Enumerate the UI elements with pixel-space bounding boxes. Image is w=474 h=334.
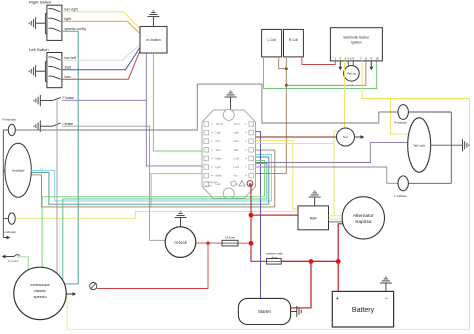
svg-text:speedo config: speedo config bbox=[65, 27, 86, 31]
svg-text:Alternator: Alternator bbox=[353, 213, 374, 219]
wire speedo green 2 to m-unit bbox=[63, 164, 267, 281]
wire F brake to m-button (purple) bbox=[62, 99, 146, 101]
svg-text:1A fuse: 1A fuse bbox=[225, 236, 235, 240]
junction m-lock sensor (red dot) bbox=[206, 241, 209, 244]
wire brown branch to m-unit row8 left (tan) bbox=[151, 174, 204, 207]
svg-text:Horn: Horn bbox=[216, 140, 222, 143]
svg-text:Brake: Brake bbox=[216, 157, 223, 160]
m-unit row tick marks bbox=[211, 124, 247, 176]
ground (m-unit) bbox=[225, 91, 237, 109]
wire speedo gray vertical bbox=[56, 100, 58, 273]
wire front R-indicator to rear (gray wrap) bbox=[15, 84, 398, 130]
wire R coil to ignition pin 8 (brown) bbox=[286, 57, 366, 85]
ground (r brake) bbox=[34, 121, 40, 132]
wire L-indicator to R+R (yellow) bbox=[15, 212, 298, 219]
wire junction to battery plus (red) bbox=[337, 262, 339, 292]
speedo output arrow bbox=[66, 293, 72, 295]
svg-text:motoscope: motoscope bbox=[30, 282, 50, 287]
speedo circle (motoscope classic) bbox=[14, 267, 66, 319]
ignition box U2 (Elektronik Sachur Ignition) bbox=[330, 28, 382, 61]
svg-text:Start: Start bbox=[216, 149, 221, 152]
wire headlight hi to m-unit (teal) bbox=[31, 157, 269, 204]
m-unit terminal squares right bbox=[249, 122, 254, 178]
svg-text:turn left: turn left bbox=[65, 56, 76, 60]
svg-text:Battery: Battery bbox=[352, 307, 375, 314]
wire horn (red) bbox=[62, 51, 140, 80]
trip switch blade bbox=[14, 255, 20, 257]
ground (R+R) bbox=[309, 191, 321, 206]
rear common vertical wire bbox=[450, 112, 452, 183]
m-unit bottom mounting hole bbox=[223, 188, 234, 199]
horn arrow bbox=[355, 136, 361, 138]
R+R box (regulator rectifier) bbox=[298, 206, 329, 230]
junction coil brown 2 bbox=[285, 84, 288, 87]
svg-text:m-lock: m-lock bbox=[174, 240, 187, 245]
wire brake light tap to tail light (yellow) bbox=[391, 99, 409, 134]
m-unit battery terminal circle bbox=[247, 181, 253, 187]
svg-text:10: 10 bbox=[375, 56, 379, 60]
pick-up sensor bbox=[347, 61, 349, 66]
svg-text:light: light bbox=[65, 17, 71, 21]
svg-text:−: − bbox=[385, 296, 389, 302]
wire speedo sensor to m-lock junction (red) bbox=[97, 243, 208, 288]
m-unit warning triangle bbox=[239, 181, 245, 186]
svg-text:motogadget: motogadget bbox=[206, 181, 218, 184]
switch box S1 (right switch) bbox=[47, 5, 62, 40]
alternator circle (Saprisa) bbox=[342, 197, 384, 239]
switch F brake bbox=[40, 97, 61, 100]
svg-text:R Coil: R Coil bbox=[289, 38, 298, 42]
pin numbers 1-10 bbox=[334, 56, 379, 60]
ground (starter) bbox=[291, 306, 302, 317]
m-button box bbox=[140, 27, 167, 54]
junction starter (red dot) bbox=[309, 259, 314, 264]
junction main (red dot) bbox=[249, 241, 254, 246]
trip switch arrow bbox=[6, 256, 15, 258]
pin 2 arrow (kill) bbox=[339, 61, 341, 67]
1A fuse bbox=[222, 240, 238, 246]
svg-text:speedo: speedo bbox=[33, 294, 47, 299]
wire m-button to m-unit row7 (purple) bbox=[146, 53, 204, 166]
svg-text:R-indicator: R-indicator bbox=[3, 117, 17, 121]
wire L-indicator rear to common (black) bbox=[408, 182, 451, 184]
svg-text:Right Switch: Right Switch bbox=[29, 0, 51, 5]
wire m-unit to alternator circuit (yellow) bbox=[256, 142, 335, 144]
wire m-lock to 1A fuse (red) bbox=[196, 242, 222, 244]
horn H1 bbox=[337, 128, 355, 146]
m-unit battery terminal dot bbox=[249, 183, 252, 186]
svg-text:R&R: R&R bbox=[310, 217, 318, 221]
wire vehicle fuse to battery (red) bbox=[281, 260, 338, 262]
wire headlight Lo to m-unit (cyan) bbox=[31, 155, 271, 202]
svg-text:classic: classic bbox=[34, 288, 46, 293]
svg-text:horn: horn bbox=[65, 75, 72, 79]
junction R+R feed (red dot) bbox=[249, 213, 254, 218]
svg-text:m-unit: m-unit bbox=[206, 184, 213, 187]
m-unit channel labels bbox=[216, 123, 241, 186]
wire tail light to ground (black) bbox=[431, 144, 463, 146]
wire L coil to junction (brown) bbox=[279, 57, 287, 69]
arrow continuation (front loom) bbox=[3, 237, 6, 239]
wire m-unit battery terminal to junction (red) bbox=[250, 186, 252, 243]
wire 1A fuse to main junction (red) bbox=[238, 242, 251, 244]
wire junction to R+R (red) bbox=[251, 214, 298, 216]
wire headlight to m-unit (brown) bbox=[31, 150, 274, 207]
L coil box bbox=[262, 29, 282, 57]
svg-text:Headlight: Headlight bbox=[12, 169, 25, 173]
ground (battery) bbox=[380, 277, 392, 291]
svg-text:Light: Light bbox=[234, 132, 240, 135]
vehicle main fuse bbox=[267, 259, 282, 265]
wire turn right (yellow) bbox=[62, 12, 140, 29]
wire light (dark yellow) bbox=[62, 21, 140, 33]
svg-text:F brake: F brake bbox=[63, 96, 75, 100]
svg-text:Turn L: Turn L bbox=[234, 123, 241, 126]
wire R-indicator rear to common (black) bbox=[408, 111, 451, 113]
wire start (blue) bbox=[62, 48, 140, 70]
m-unit logo circle bbox=[231, 181, 236, 186]
wire r brake to m-lock (gray) bbox=[62, 126, 165, 240]
stub L-indicator bbox=[3, 218, 8, 220]
battery box bbox=[332, 291, 393, 327]
svg-text:Lo/Hi: Lo/Hi bbox=[234, 157, 240, 160]
R-indicator front lamp bbox=[8, 124, 15, 135]
wire R+R to alternator phase 3 (dark) bbox=[329, 221, 344, 223]
wire R+R to alternator phase 1 (yellow) bbox=[329, 215, 345, 217]
wire m-button to m-unit row5 (green) bbox=[153, 53, 204, 151]
m-unit U1 body bbox=[202, 110, 256, 199]
switch contacts S2 bbox=[48, 57, 60, 79]
wire speedo to bottom yellow rail bbox=[67, 297, 469, 330]
svg-text:L Coil: L Coil bbox=[267, 38, 276, 42]
svg-text:Ignition: Ignition bbox=[351, 41, 362, 45]
wire L-indicator branch to speedo (pale yellow) bbox=[59, 218, 61, 275]
wire R+R to alternator phase 2 (yellow) bbox=[329, 218, 344, 220]
wire turn left (white) bbox=[62, 45, 140, 61]
wire junction down to vehicle main fuse (red) bbox=[251, 243, 267, 261]
svg-text:Start: Start bbox=[234, 149, 239, 152]
wire m-unit to starter solenoid (blue) bbox=[256, 132, 261, 299]
switch contacts S1 bbox=[48, 9, 60, 32]
R coil box bbox=[284, 29, 304, 57]
wire m-unit to tail light (purple) bbox=[256, 143, 408, 163]
ground (left switch) bbox=[29, 62, 47, 82]
svg-text:L-indicator: L-indicator bbox=[395, 194, 407, 198]
switch box S2 (left switch) bbox=[47, 53, 62, 88]
switch r brake bbox=[40, 123, 61, 126]
svg-text:Saprisa: Saprisa bbox=[355, 219, 372, 225]
wire L coil to ignition pin 10 (green) bbox=[264, 57, 377, 89]
junction battery (red dot) bbox=[336, 259, 341, 264]
R-indicator rear lamp bbox=[398, 105, 408, 120]
svg-text:r brake: r brake bbox=[63, 122, 74, 126]
wire junction to starter (red) bbox=[291, 262, 311, 308]
pin 9 arrow bbox=[370, 61, 372, 67]
svg-text:Light: Light bbox=[216, 166, 222, 169]
svg-text:Pick-up: Pick-up bbox=[347, 72, 356, 76]
ground (right switch) bbox=[29, 14, 47, 34]
L-indicator rear lamp bbox=[398, 176, 408, 191]
m-unit terminal squares left bbox=[204, 122, 209, 187]
wire trip switch to speedo (light green) bbox=[18, 257, 29, 270]
svg-text:Light: Light bbox=[216, 132, 222, 135]
ground (F brake) bbox=[34, 95, 40, 106]
svg-text:start: start bbox=[65, 65, 72, 69]
junction coil brown 1 bbox=[285, 67, 288, 70]
wire ignition pin 3 to R+R (yellow) bbox=[334, 61, 345, 216]
svg-text:Starter: Starter bbox=[258, 309, 272, 314]
wire speedo green 1 to m-unit bbox=[42, 161, 265, 268]
svg-text:Horn: Horn bbox=[234, 140, 240, 143]
tail light lamp bbox=[408, 118, 431, 172]
svg-text:Left Switch: Left Switch bbox=[29, 47, 49, 52]
wire coils to m-unit row8 (brown) bbox=[256, 85, 287, 173]
svg-text:m-button: m-button bbox=[146, 38, 160, 42]
svg-text:Brake: Brake bbox=[216, 175, 223, 178]
svg-text:Turn R: Turn R bbox=[216, 123, 223, 126]
ground (tail light) bbox=[463, 139, 469, 151]
headlight lamp bbox=[5, 143, 31, 197]
m-unit top mounting hole bbox=[223, 109, 234, 120]
speedo sensor circle bbox=[90, 283, 97, 290]
svg-text:horn: horn bbox=[343, 135, 349, 139]
wire speedo config (teal) bbox=[62, 31, 78, 284]
ground (m-lock) bbox=[175, 212, 187, 227]
ground (m-button) bbox=[147, 11, 159, 27]
wire m-unit to rear L-indicator (gray) bbox=[256, 167, 399, 183]
wire alternator to junction (red) bbox=[338, 224, 344, 262]
svg-text:turn right: turn right bbox=[65, 7, 78, 11]
front loom vertical wire bbox=[2, 130, 4, 238]
svg-text:L-indicator: L-indicator bbox=[3, 230, 16, 234]
stub R-indicator bbox=[3, 129, 8, 131]
svg-text:Lo/Hi: Lo/Hi bbox=[234, 166, 240, 169]
svg-text:trip switch: trip switch bbox=[8, 260, 19, 263]
wire ignition pin 7 to rails (yellow) bbox=[362, 61, 470, 330]
starter box bbox=[238, 298, 290, 324]
wire m-unit to R+R (yellow) bbox=[256, 141, 299, 209]
wire m-unit to horn (dark red) bbox=[256, 136, 337, 138]
m-lock circle bbox=[165, 227, 196, 258]
L-indicator front lamp bbox=[8, 213, 15, 224]
svg-text:+: + bbox=[336, 297, 340, 303]
svg-text:Tail Light: Tail Light bbox=[413, 143, 425, 147]
svg-text:Elektronik Sachur: Elektronik Sachur bbox=[343, 36, 370, 40]
wire R coil to ignition pin 1 (red) bbox=[302, 57, 335, 65]
svg-text:R-indicator: R-indicator bbox=[395, 121, 408, 125]
stub headlight bbox=[3, 170, 5, 172]
